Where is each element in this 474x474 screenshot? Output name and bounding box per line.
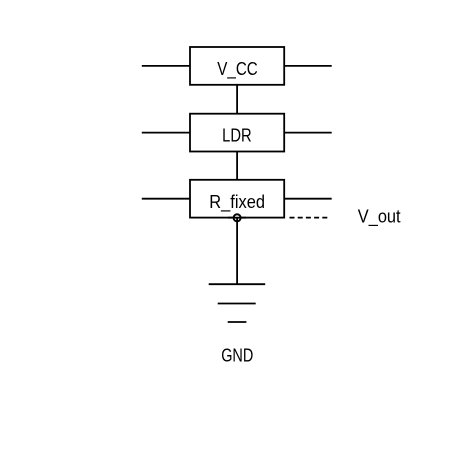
svg-text:V_CC: V_CC [217, 58, 258, 80]
svg-text:GND: GND [221, 344, 253, 365]
svg-text:V_out: V_out [358, 206, 402, 228]
svg-text:R_fixed: R_fixed [209, 191, 265, 213]
svg-text:LDR: LDR [222, 125, 252, 146]
